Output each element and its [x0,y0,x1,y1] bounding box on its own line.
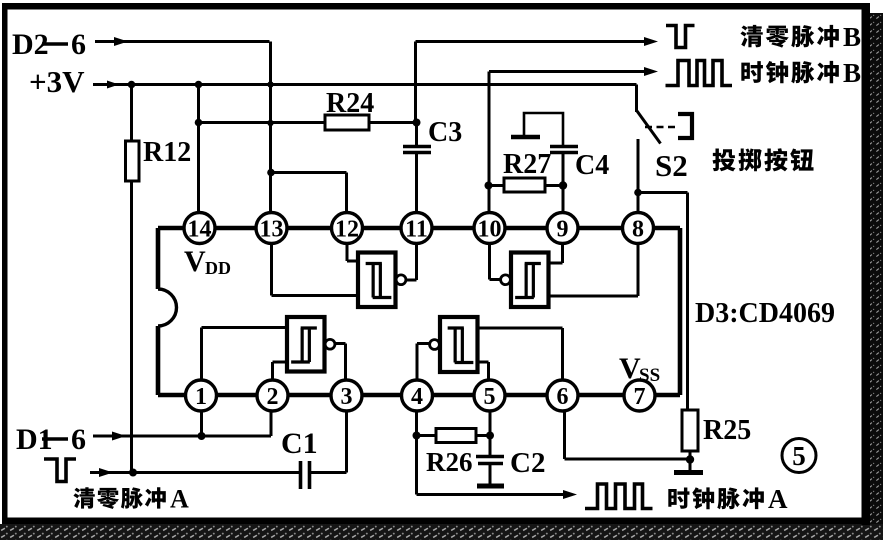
svg-text:1: 1 [195,384,207,410]
svg-text:A: A [768,484,788,514]
svg-text:R25: R25 [703,415,751,446]
svg-text:+3V: +3V [29,64,85,99]
svg-text:A: A [170,485,189,514]
svg-text:7: 7 [634,384,646,410]
svg-text:C2: C2 [510,447,545,479]
svg-text:R12: R12 [143,137,191,168]
svg-text:6: 6 [71,28,86,61]
svg-text:C3: C3 [428,117,462,148]
svg-text:5: 5 [792,441,806,471]
svg-text:C1: C1 [281,427,318,460]
svg-text:4: 4 [411,384,423,410]
svg-text:14: 14 [188,217,212,243]
svg-text:SS: SS [639,365,660,386]
svg-text:2: 2 [267,384,279,410]
svg-text:V: V [619,352,641,385]
svg-text:6: 6 [557,384,569,410]
svg-text:13: 13 [260,217,284,243]
svg-text:3: 3 [341,384,353,410]
svg-text:11: 11 [405,217,428,243]
svg-text:8: 8 [632,217,644,243]
svg-text:C4: C4 [575,150,609,181]
svg-text:R26: R26 [426,447,473,477]
svg-text:B: B [843,58,861,88]
svg-text:6: 6 [71,423,86,456]
svg-text:R24: R24 [326,88,374,119]
svg-text:V: V [184,245,206,278]
svg-text:9: 9 [557,217,569,243]
svg-text:DD: DD [205,258,231,278]
svg-text:10: 10 [478,217,502,243]
svg-text:B: B [843,22,861,52]
svg-text:D3:CD4069: D3:CD4069 [695,298,835,329]
svg-text:5: 5 [484,384,496,410]
svg-text:12: 12 [335,217,359,243]
svg-text:R27: R27 [503,149,551,180]
svg-text:S2: S2 [655,148,688,183]
